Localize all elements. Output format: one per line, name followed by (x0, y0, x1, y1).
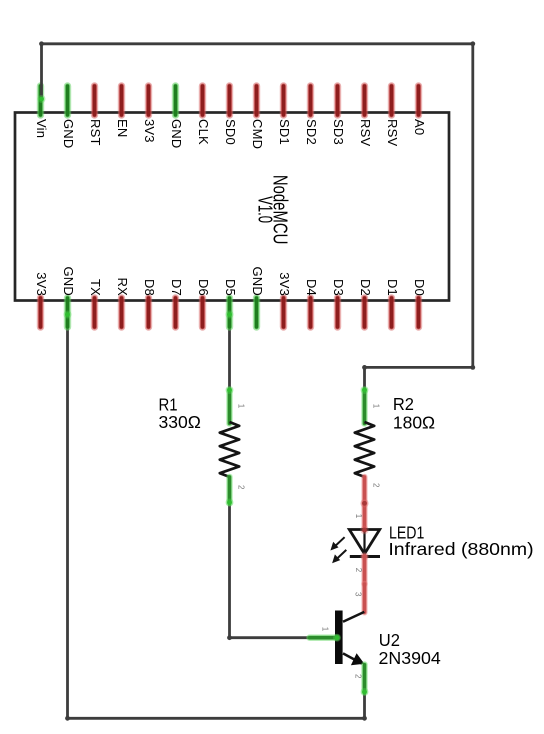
pin GND (bottom 9) (253, 298, 260, 327)
svg-text:330Ω: 330Ω (159, 412, 201, 432)
transistor U2 emitter lead (361, 665, 368, 692)
pin CLK (top 7) (199, 86, 206, 115)
pin RSV (top 14) (388, 86, 395, 115)
terminal dot at Vin pin (38, 95, 46, 103)
LED1 emission arrow 2 (332, 550, 346, 563)
svg-text:RSV: RSV (385, 119, 400, 146)
transistor U2 emitter arrowhead (351, 653, 364, 665)
LED1 terminal dot top (red) (360, 526, 368, 534)
svg-text:V1.0: V1.0 (253, 196, 275, 223)
terminal dot at D5 pin (226, 311, 234, 319)
terminal dot R1 pin 1 (226, 386, 234, 394)
pin 3V3 (bottom 10) (280, 298, 287, 327)
junction bottom-right (emitter to GND) (362, 716, 367, 721)
svg-text:RSV: RSV (358, 119, 373, 146)
pin D5 (bottom 8) (226, 298, 233, 327)
pin SD0 (top 8) (226, 86, 233, 115)
svg-text:1: 1 (320, 627, 329, 632)
pin EN (top 4) (118, 86, 125, 115)
pin GND (top 6) (172, 86, 179, 115)
pin RX (bottom 4) (118, 298, 125, 327)
svg-text:SD1: SD1 (277, 119, 292, 145)
transistor U2 base terminal dot (333, 634, 341, 642)
pin SD1 (top 10) (280, 86, 287, 115)
resistor R2 lead 1 (361, 390, 368, 424)
svg-text:GND: GND (61, 267, 76, 297)
wire base corner to Q1 base (230, 636, 310, 639)
svg-text:RST: RST (88, 119, 103, 146)
pin GND (bottom 2) (64, 298, 71, 327)
junction right rail corner (470, 365, 475, 370)
transistor U2 collector lead (unrouted net, red) (361, 584, 367, 612)
pin D1 (bottom 14) (388, 298, 395, 327)
pin TX (bottom 3) (91, 298, 98, 327)
transistor U2 base bar (335, 611, 343, 665)
pin 3V3 (bottom 1) (37, 298, 44, 327)
resistor R1 lead 1 (226, 390, 233, 424)
svg-text:Vin: Vin (34, 119, 49, 138)
pin A0 (top 15) (415, 86, 422, 115)
svg-text:1: 1 (372, 404, 381, 409)
svg-text:2: 2 (372, 483, 381, 488)
wire top rail horizontal (42, 42, 473, 45)
pin D3 (bottom 12) (334, 298, 341, 327)
svg-text:D4: D4 (304, 279, 319, 296)
wire right rail to R2 (365, 366, 473, 369)
wire R1 to base corner (228, 503, 231, 638)
svg-text:3V3: 3V3 (277, 272, 292, 296)
LED1 lead 1 (unrouted net, red) (361, 503, 367, 529)
svg-text:CMD: CMD (250, 119, 265, 149)
wire bottom horizontal (68, 717, 365, 720)
pin GND (top 2) (64, 86, 71, 115)
svg-text:3V3: 3V3 (142, 119, 157, 143)
LED1 triangle (349, 530, 379, 554)
svg-text:D8: D8 (142, 279, 157, 296)
svg-text:D1: D1 (385, 279, 400, 296)
svg-text:2: 2 (237, 485, 246, 490)
svg-text:SD3: SD3 (331, 119, 346, 145)
svg-text:3V3: 3V3 (34, 272, 49, 296)
NodeMCU U1 body (15, 113, 449, 301)
svg-text:D2: D2 (358, 279, 373, 296)
terminal dot R2 pin 1 (361, 386, 369, 394)
pin SD2 (top 11) (307, 86, 314, 115)
svg-text:D6: D6 (196, 279, 211, 296)
wire R2 drop (363, 367, 366, 390)
pin CMD (top 9) (253, 86, 260, 115)
LED1 terminal dot bottom (red) (360, 552, 368, 560)
pin 3V3 (top 5) (145, 86, 152, 115)
junction bottom-left (GND corner) (65, 716, 70, 721)
svg-text:1: 1 (354, 514, 363, 519)
junction top-right (470, 41, 475, 46)
pin D0 (bottom 15) (415, 298, 422, 327)
pin D4 (bottom 11) (307, 298, 314, 327)
resistor R1 zigzag (220, 422, 239, 477)
svg-text:R2: R2 (393, 394, 414, 414)
resistor R2 zigzag (355, 422, 374, 477)
pin D6 (bottom 7) (199, 298, 206, 327)
resistor R1 lead 2 (226, 477, 233, 503)
node R2 top corner (362, 365, 367, 370)
transistor U2 emitter line (343, 653, 362, 663)
svg-text:SD2: SD2 (304, 119, 319, 145)
junction top-left (Vin rail) (39, 41, 44, 46)
pin RST (top 3) (91, 86, 98, 115)
svg-text:Infrared (880nm): Infrared (880nm) (388, 539, 533, 559)
junction R2/LED1 (red) (360, 499, 368, 507)
LED1 cathode bar (350, 555, 380, 558)
svg-text:2: 2 (354, 568, 363, 573)
svg-text:3: 3 (353, 592, 362, 597)
LED1 emission arrow 1 (330, 537, 344, 550)
svg-text:TX: TX (88, 279, 103, 296)
pin RSV (top 13) (361, 86, 368, 115)
resistor R2 lead 2 (unrouted net, red) (361, 477, 367, 503)
svg-text:D3: D3 (331, 279, 346, 296)
transistor U2 collector line (343, 612, 364, 622)
svg-text:2: 2 (353, 674, 362, 679)
svg-text:U2: U2 (379, 630, 400, 650)
terminal dot at GND pin (bottom) (64, 311, 72, 319)
wire D5 to R1 (228, 315, 231, 391)
wire Vin to top rail (40, 44, 43, 99)
pin D8 (bottom 5) (145, 298, 152, 327)
LED1 internal lead (363, 530, 365, 554)
pin SD3 (top 12) (334, 86, 341, 115)
pin D2 (bottom 13) (361, 298, 368, 327)
transistor U2 base lead (310, 634, 338, 641)
svg-text:EN: EN (115, 119, 130, 137)
node base corner junction (227, 635, 232, 640)
svg-text:SD0: SD0 (223, 119, 238, 145)
svg-text:D5: D5 (223, 279, 238, 296)
svg-text:1: 1 (237, 404, 246, 409)
svg-text:D0: D0 (412, 279, 427, 296)
transistor U2 emitter terminal dot (361, 688, 369, 696)
svg-text:GND: GND (250, 267, 265, 297)
svg-text:RX: RX (115, 278, 130, 297)
svg-text:180Ω: 180Ω (393, 412, 435, 432)
terminal dot R1 pin 2 (226, 499, 234, 507)
pin D7 (bottom 6) (172, 298, 179, 327)
svg-text:CLK: CLK (196, 119, 211, 145)
LED1 lead 2 (unrouted net, red) (361, 556, 367, 584)
svg-text:A0: A0 (412, 119, 427, 135)
wire right rail vertical (471, 44, 474, 368)
wire emitter riser (363, 692, 366, 718)
svg-text:GND: GND (169, 119, 184, 149)
svg-text:D7: D7 (169, 279, 184, 296)
wire GND left vertical (66, 315, 69, 719)
svg-text:GND: GND (61, 119, 76, 149)
pin Vin (top 1) (37, 86, 44, 115)
svg-text:2N3904: 2N3904 (379, 648, 442, 668)
